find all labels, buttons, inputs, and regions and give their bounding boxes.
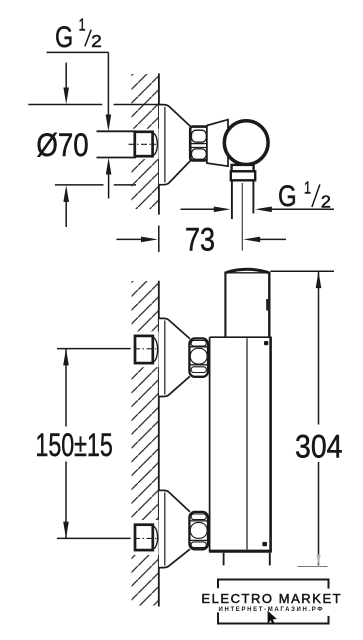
svg-text:73: 73 <box>185 221 215 257</box>
150 arrow up <box>63 349 69 366</box>
extension line 304 bottom <box>298 566 328 568</box>
G1/2 pipe arrow pointing left <box>255 207 272 213</box>
mouse cursor icon <box>268 611 277 625</box>
svg-text:G: G <box>278 180 297 213</box>
union hex nut upper (bottom view) <box>189 338 208 376</box>
svg-text:1: 1 <box>79 14 86 34</box>
150 dimension line upper part <box>65 349 67 427</box>
G1/2 leader line down <box>107 52 109 116</box>
Ø70 arrow up <box>63 185 69 202</box>
svg-text:ELECTRO MARKET: ELECTRO MARKET <box>201 591 340 606</box>
logo frame <box>217 579 330 625</box>
svg-text:304: 304 <box>295 428 343 464</box>
centre line of wall thread (top view) <box>129 143 157 145</box>
extension line 150 upper / centre line <box>57 348 134 350</box>
collar nut under ball, lower band <box>231 171 255 180</box>
73 dimension left line <box>116 238 142 240</box>
304 dimension line lower part <box>318 462 320 565</box>
G1/2 pipe dimension right line <box>270 208 334 210</box>
ball body of outlet elbow (top view) <box>224 121 268 165</box>
centre line upper thread (bottom view) <box>134 348 156 350</box>
G1/2 lower arrow tail <box>108 172 110 199</box>
extension line Ø70 bottom <box>55 184 136 186</box>
150 dimension line lower part <box>65 462 67 539</box>
extension line Ø70 top <box>28 104 160 106</box>
centre line lower thread (bottom view) <box>134 537 156 539</box>
mixer top pipe cap lens <box>227 269 269 272</box>
wall hatching (top view) <box>132 74 159 209</box>
label G1/2 (top left) <box>55 14 102 54</box>
wall thread square nut lower (bottom view) <box>131 520 159 555</box>
Ø70 lower arrow tail <box>65 200 67 228</box>
mixer top pipe cap base line <box>226 272 269 274</box>
150 arrow down <box>63 522 69 539</box>
elbow housing between nut and ball (top view) <box>207 120 228 167</box>
stop button lower <box>262 542 267 546</box>
wall hatching (bottom view) <box>132 281 159 606</box>
svg-text:G: G <box>55 21 73 54</box>
extension line G1/2 nut bottom <box>97 157 137 159</box>
leader underline of G1/2 (top left) <box>47 51 109 53</box>
G1/2 pipe arrow pointing right <box>214 207 231 213</box>
wall thread square nut upper (bottom view) <box>131 332 159 368</box>
extension line 304 top <box>271 270 335 272</box>
wall thread square nut (top view) <box>132 129 159 159</box>
highlight tick inside pipe right edge <box>266 299 268 311</box>
mixer top pipe right edge <box>268 272 270 338</box>
mixer body outline <box>209 337 272 551</box>
union hex nut lower (bottom view) <box>189 512 208 549</box>
73 dimension right line <box>259 238 287 240</box>
down pipe left edge (top view) <box>231 180 233 219</box>
G1/2 arrow down to nut top <box>106 115 112 132</box>
304 dimension line upper part <box>318 271 320 424</box>
extension line 150 lower / centre line <box>57 537 134 539</box>
escutcheon cone lower (bottom view) <box>159 490 190 567</box>
svg-text:150±15: 150±15 <box>35 427 112 463</box>
escutcheon cone (top view) <box>159 105 191 185</box>
mixer top pipe left edge <box>224 272 226 338</box>
body feature line <box>246 338 248 549</box>
Ø70 arrow down <box>63 88 69 105</box>
wall face extension line for 73 <box>158 226 160 253</box>
union hex nut (top view) <box>190 127 207 161</box>
svg-text:Ø70: Ø70 <box>36 128 88 163</box>
G1/2 pipe dimension left line <box>181 208 215 210</box>
collar nut under ball, upper band <box>232 165 254 171</box>
svg-text:2: 2 <box>91 31 102 51</box>
73 arrow pointing left <box>243 237 260 243</box>
73 arrow pointing right <box>141 237 158 243</box>
wall face line (bottom view) <box>158 281 160 607</box>
escutcheon cone upper (bottom view) <box>159 318 190 396</box>
304 arrow down <box>316 555 320 566</box>
stop button upper <box>264 341 268 345</box>
wall face line (top view) <box>158 73 160 214</box>
304 arrow up <box>316 271 322 288</box>
down pipe right edge (top view) <box>252 180 254 213</box>
G1/2 arrow up to nut bottom <box>106 158 112 175</box>
svg-text:1: 1 <box>304 177 311 197</box>
pipe centre line (top view) <box>241 183 243 251</box>
Ø70 upper arrow line <box>65 63 67 88</box>
bottom outlet left leg <box>223 553 225 566</box>
label G1/2 (right of pipe) <box>278 177 331 213</box>
bottom outlet right leg <box>269 553 271 566</box>
extension line G1/2 nut top <box>97 130 137 132</box>
